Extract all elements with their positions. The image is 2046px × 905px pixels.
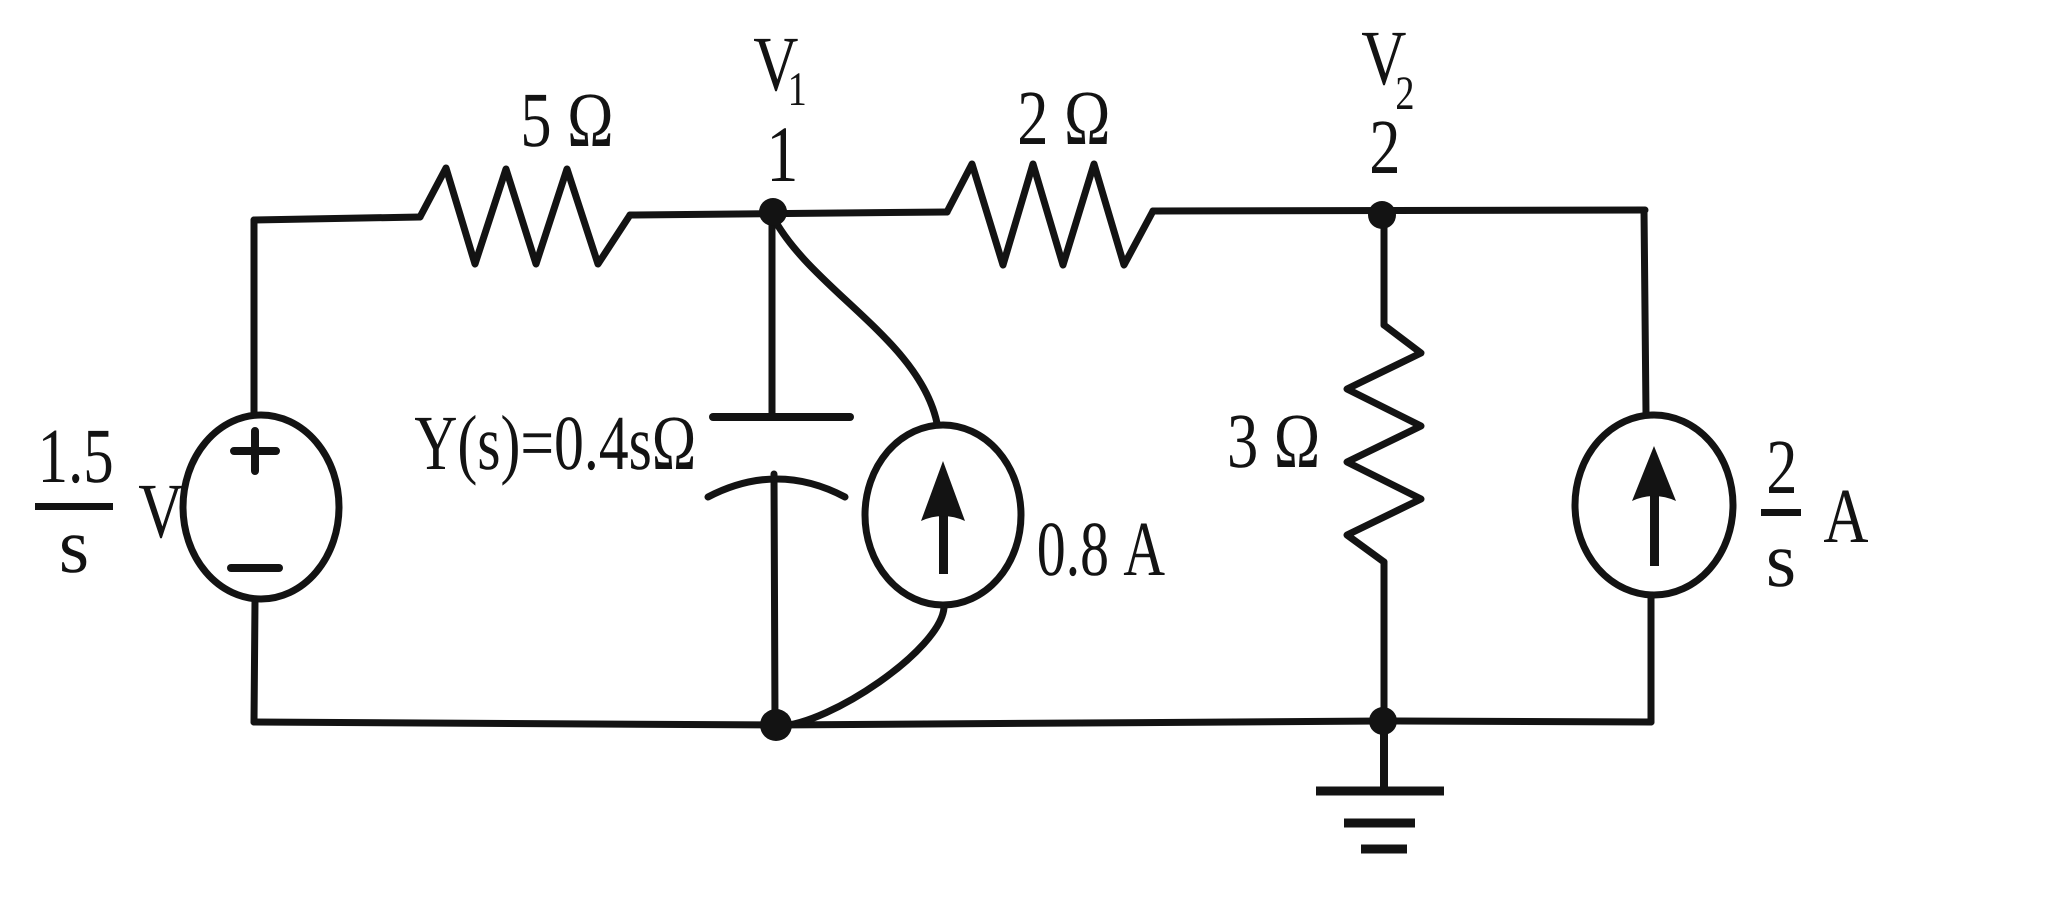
minus sign of voltage source [231, 564, 279, 572]
wire right bottom stub [1648, 595, 1655, 722]
label V2 V [1362, 33, 1406, 85]
current source 0.8A circle [865, 425, 1021, 605]
label 5 ohm [524, 94, 610, 146]
label 0.8 A [1039, 523, 1165, 576]
voltage source V1.5/s circle [183, 415, 339, 599]
resistor R 3ohm vertical [1347, 325, 1421, 562]
resistor R 5ohm [420, 168, 630, 264]
label fraction s left [62, 535, 86, 573]
wire left vertical top [251, 220, 258, 413]
ground bar 2 [1344, 819, 1415, 828]
label A unit [1824, 491, 1868, 543]
label fraction 1.5 [43, 431, 111, 484]
wire right vertical to current source [1644, 210, 1646, 413]
wire curve node1 to current source top [772, 215, 937, 423]
fraction bar right (2/s) [1761, 509, 1801, 516]
wire bottom horizontal [254, 721, 1651, 725]
bottom right junction dot [1369, 707, 1397, 735]
capacitor C top plate [713, 413, 850, 421]
ground stub [1380, 721, 1388, 791]
wire top middle (node1 span) [630, 212, 947, 215]
ground bar 3 [1361, 845, 1407, 854]
wire left vertical bottom [254, 601, 255, 722]
current source 2/s circle [1575, 415, 1733, 595]
label 2 ohm [1020, 92, 1107, 144]
plus sign of voltage source [234, 431, 276, 471]
label V1 subscript 1 [791, 73, 805, 105]
bottom middle junction dot [760, 709, 792, 741]
capacitor C bottom curved plate [708, 479, 845, 497]
label node number 1 [772, 128, 795, 181]
wire node1 to capacitor [769, 212, 776, 417]
wire 3ohm to bottom [1381, 562, 1388, 721]
arrow of 0.8A source [939, 512, 948, 574]
label Y(s)=0.4s ohm [415, 415, 693, 486]
wire top-left horizontal [254, 217, 420, 220]
wire curve current source bottom to ground node [780, 608, 944, 726]
label V unit [139, 486, 183, 538]
node 2 junction dot [1368, 201, 1396, 229]
arrow of 2/s source [1650, 496, 1659, 566]
wire top right [1153, 210, 1645, 211]
label V2 subscript 2 [1397, 77, 1412, 109]
label V1 V [754, 39, 798, 91]
wire node2 to 3ohm resistor [1381, 215, 1388, 325]
node 1 junction dot [759, 198, 787, 226]
ground bar 1 [1316, 787, 1444, 796]
label fraction s right [1769, 549, 1793, 587]
label node number 2 [1372, 121, 1397, 173]
resistor R 2ohm [947, 164, 1153, 265]
label fraction 2 [1769, 441, 1794, 493]
wire capacitor to bottom node [774, 474, 775, 723]
label 3 ohm [1230, 415, 1317, 467]
fraction bar left (1.5/s) [35, 503, 113, 510]
